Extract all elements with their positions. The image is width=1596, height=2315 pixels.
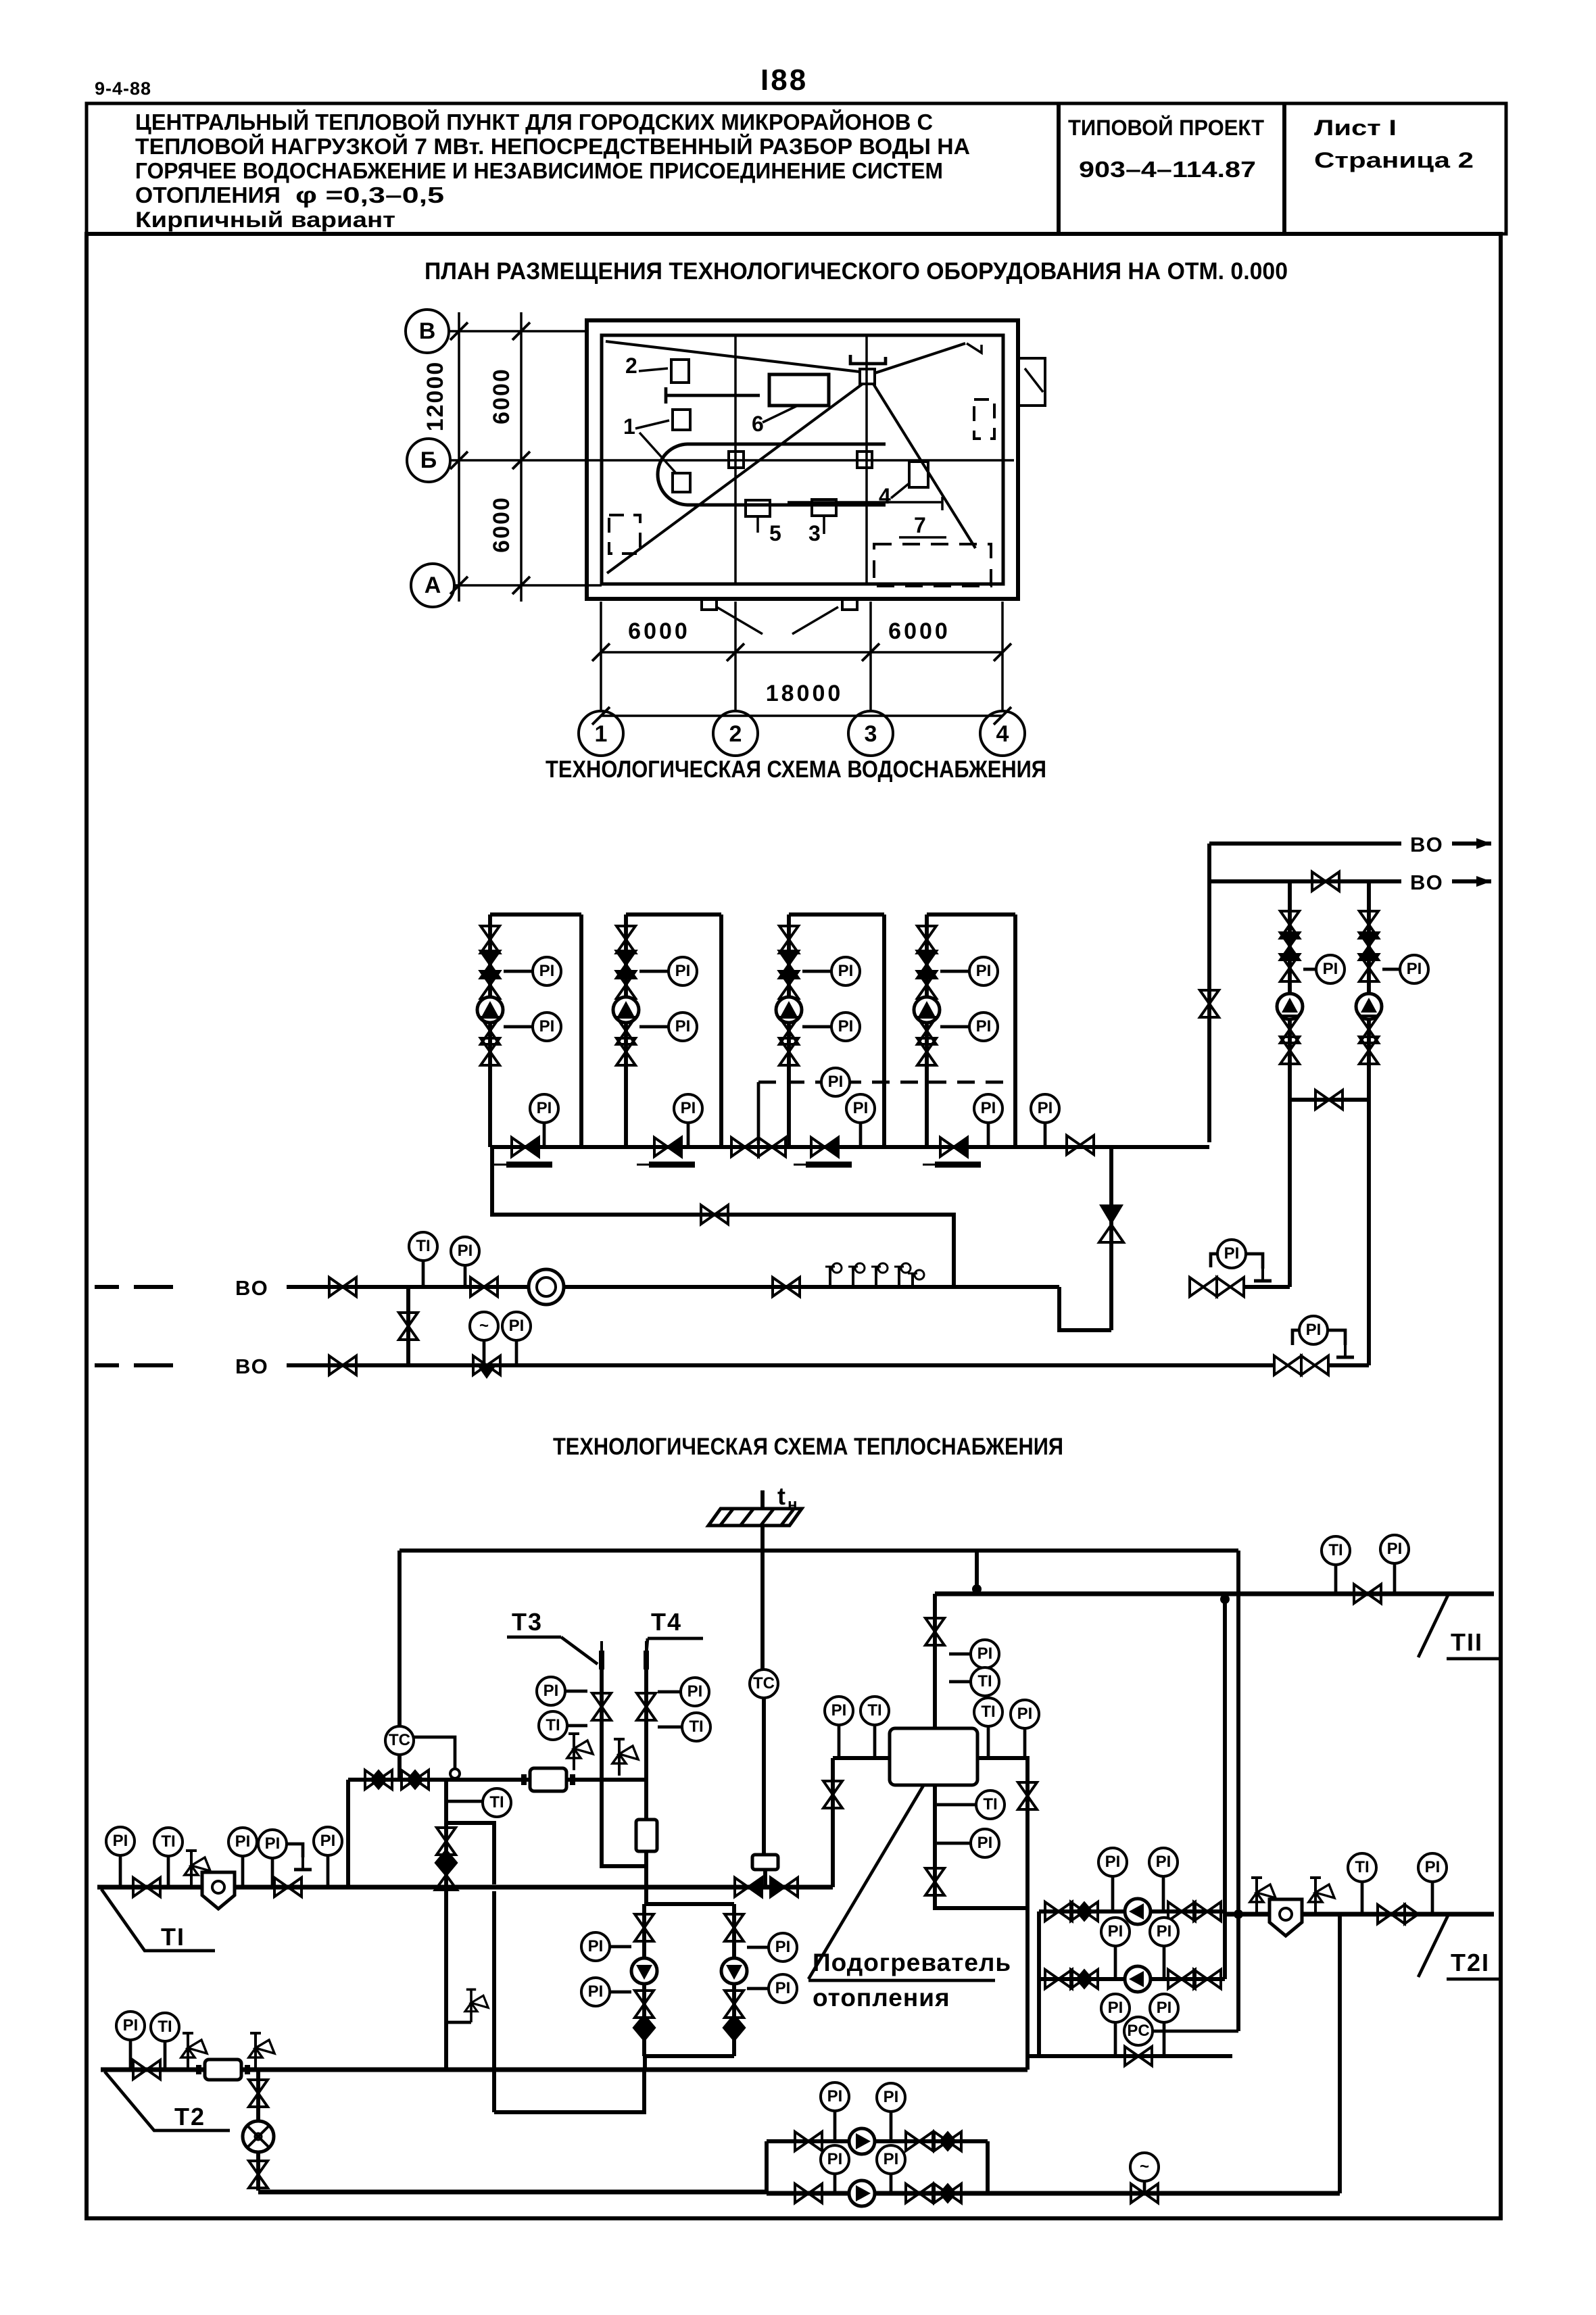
svg-text:18000: 18000 bbox=[766, 681, 844, 706]
gauge stem bbox=[610, 1991, 631, 1994]
recirc bottom branch bbox=[767, 2191, 988, 2195]
TI branch bbox=[446, 1780, 494, 1884]
svg-text:PI: PI bbox=[853, 1099, 869, 1117]
valve bbox=[616, 926, 635, 953]
thermometer well bbox=[644, 1641, 649, 1670]
valve bbox=[1280, 911, 1299, 938]
valve bbox=[470, 1277, 498, 1296]
battery row 3 bbox=[1027, 2054, 1232, 2058]
gauge TI bbox=[861, 1697, 889, 1725]
pump column 2 riser bbox=[624, 915, 628, 1147]
svg-text:2: 2 bbox=[625, 354, 637, 378]
valve bbox=[481, 971, 500, 998]
grid line В bbox=[449, 330, 588, 333]
svg-text:6000: 6000 bbox=[489, 368, 514, 424]
pump bbox=[914, 997, 940, 1023]
svg-text:PI: PI bbox=[1407, 960, 1422, 978]
dimension line 6000+6000 bbox=[601, 651, 1002, 654]
valve bbox=[512, 1138, 539, 1156]
svg-text:ВО: ВО bbox=[1410, 833, 1444, 856]
valve bbox=[1067, 1136, 1094, 1154]
svg-text:PI: PI bbox=[687, 1682, 703, 1701]
valve bbox=[592, 1693, 611, 1720]
dashed pit bottom bbox=[874, 544, 991, 586]
gauge PI bbox=[877, 2083, 905, 2112]
bracket 7 bbox=[788, 501, 942, 504]
door bottom 1 bbox=[696, 599, 717, 610]
svg-text:PI: PI bbox=[235, 1832, 251, 1851]
svg-text:TI: TI bbox=[158, 2018, 172, 2036]
valve bbox=[773, 1277, 800, 1296]
svg-text:TI: TI bbox=[546, 1716, 560, 1734]
rail line bbox=[666, 394, 760, 397]
svg-text:4: 4 bbox=[879, 484, 891, 508]
makeup drop bbox=[256, 2070, 260, 2191]
gauge stem bbox=[1044, 1123, 1047, 1147]
small box on axis Б left bbox=[729, 452, 744, 468]
thermometer well bbox=[599, 1641, 604, 1670]
vent mark bbox=[294, 1851, 312, 1870]
gauge stem bbox=[833, 2111, 837, 2141]
pump bbox=[776, 997, 802, 1023]
building outer wall bbox=[587, 320, 1018, 599]
svg-text:PI: PI bbox=[775, 1938, 791, 1956]
svg-text:ВО: ВО bbox=[235, 1276, 269, 1300]
gauge stem bbox=[610, 1945, 631, 1949]
equipment 1 box upper bbox=[673, 410, 690, 430]
svg-text:Страница 2: Страница 2 bbox=[1314, 148, 1474, 172]
BO top line 2 bbox=[1209, 879, 1401, 883]
heater box bbox=[890, 1728, 977, 1785]
extension line 2 bbox=[734, 602, 737, 711]
dirt trap bbox=[1269, 1899, 1302, 1936]
impulse line dashed bbox=[758, 1081, 1015, 1084]
svg-text:PI: PI bbox=[976, 962, 992, 980]
gauge stem bbox=[464, 1265, 467, 1287]
valve bbox=[249, 2080, 268, 2107]
gauge stem bbox=[1114, 1946, 1117, 1979]
gauge stem bbox=[446, 1800, 483, 1803]
svg-text:TI: TI bbox=[1328, 1541, 1343, 1559]
svg-text:PI: PI bbox=[838, 962, 854, 980]
gauge stem bbox=[987, 1123, 990, 1147]
gauge stem bbox=[937, 1842, 971, 1845]
gauge stem bbox=[987, 1726, 990, 1757]
crane ray 2 bbox=[875, 343, 965, 373]
drain mark bbox=[935, 1162, 981, 1168]
svg-text:PI: PI bbox=[977, 1834, 993, 1852]
drain mark bbox=[506, 1162, 552, 1168]
svg-text:PI: PI bbox=[543, 1682, 559, 1700]
svg-text:1: 1 bbox=[623, 414, 635, 439]
gauge PI bbox=[821, 1068, 850, 1096]
crane node bbox=[860, 369, 875, 384]
grid axis 1 bbox=[579, 711, 623, 756]
gauge PI bbox=[1400, 955, 1428, 983]
valve bbox=[437, 1828, 456, 1855]
gauge PI bbox=[530, 1094, 558, 1123]
recirc right leg bbox=[986, 2141, 990, 2193]
valve bbox=[795, 2184, 822, 2203]
svg-text:PI: PI bbox=[1323, 960, 1338, 978]
gauge TI bbox=[154, 1828, 183, 1856]
svg-text:PC: PC bbox=[1127, 2022, 1149, 2040]
header junction bbox=[975, 1551, 979, 1594]
equipment 5 box bbox=[746, 500, 770, 516]
svg-text:PI: PI bbox=[828, 1073, 844, 1091]
svg-text:ТII: ТII bbox=[1451, 1628, 1483, 1656]
valve bbox=[1217, 1277, 1244, 1296]
svg-text:TI: TI bbox=[867, 1701, 881, 1720]
BO2 pipe bbox=[287, 1363, 1276, 1367]
impulse drop bbox=[757, 1082, 760, 1144]
T2 break label bbox=[105, 2072, 230, 2130]
equipment 4 box bbox=[909, 462, 928, 487]
svg-text:TC: TC bbox=[389, 1731, 410, 1749]
svg-text:3: 3 bbox=[808, 521, 821, 545]
footer to T2 bbox=[643, 2056, 647, 2070]
svg-text:ТЕХНОЛОГИЧЕСКАЯ СХЕМА ВОДОСНАБ: ТЕХНОЛОГИЧЕСКАЯ СХЕМА ВОДОСНАБЖЕНИЯ bbox=[546, 756, 1046, 783]
valve bbox=[329, 1356, 356, 1375]
valve bbox=[779, 1038, 798, 1065]
grid axis 4 bbox=[980, 711, 1025, 756]
drain mark bbox=[649, 1162, 695, 1168]
booster riser bbox=[1288, 881, 1292, 1062]
tee to BO2 bbox=[406, 1287, 410, 1365]
valve bbox=[481, 951, 500, 978]
inline device bbox=[524, 1768, 573, 1791]
gauge PI bbox=[533, 957, 561, 985]
gauge stem bbox=[890, 2112, 893, 2141]
circulation pump footer bbox=[644, 2054, 734, 2058]
pump column 1 right leg bbox=[579, 915, 583, 1147]
svg-text:PI: PI bbox=[265, 1834, 281, 1853]
check valve bbox=[436, 1851, 456, 1875]
svg-text:Т3: Т3 bbox=[512, 1608, 543, 1636]
flow arrow bbox=[1476, 838, 1491, 849]
gauge stem bbox=[422, 1261, 425, 1287]
heater left drop bbox=[831, 1758, 835, 1887]
gauge PI bbox=[228, 1828, 257, 1856]
grid axis 2 bbox=[713, 711, 758, 756]
svg-text:Т2I: Т2I bbox=[1451, 1949, 1490, 1976]
gauge stem bbox=[1163, 2022, 1166, 2056]
dashed pit left bbox=[609, 515, 640, 554]
riser to T1 left bbox=[346, 1780, 350, 1887]
svg-text:PI: PI bbox=[537, 1099, 552, 1117]
actuator box bbox=[752, 1855, 778, 1870]
gauge TI bbox=[539, 1711, 567, 1740]
gauge PI bbox=[831, 957, 860, 985]
drawing frame bbox=[87, 234, 1501, 2218]
gauge TI bbox=[1348, 1853, 1376, 1882]
dirt trap bbox=[202, 1872, 235, 1909]
svg-text:TI: TI bbox=[983, 1795, 997, 1813]
pump bbox=[477, 997, 503, 1023]
check valve bbox=[634, 2016, 654, 2040]
valve bbox=[917, 926, 936, 953]
BO2 pipe dashes bbox=[95, 1363, 119, 1367]
valve bbox=[1194, 1902, 1221, 1921]
gauge PI bbox=[581, 1978, 610, 2006]
gauge PI bbox=[1031, 1094, 1059, 1123]
gauge stem bbox=[567, 1724, 587, 1728]
gauge PI bbox=[537, 1677, 565, 1705]
extension line 3 bbox=[869, 602, 872, 711]
T3 drop to pump suction bbox=[602, 1780, 646, 1866]
heater label leader bbox=[808, 1784, 924, 1979]
valve bbox=[771, 1878, 798, 1897]
gauge stem bbox=[1114, 2022, 1117, 2056]
valve bbox=[934, 2184, 961, 2203]
tank pit outline bbox=[658, 444, 886, 505]
crane ray 3 bbox=[607, 384, 863, 573]
gauge stem bbox=[802, 1025, 831, 1029]
svg-text:PI: PI bbox=[831, 1701, 847, 1720]
valve bbox=[906, 2132, 933, 2151]
svg-text:PI: PI bbox=[458, 1242, 473, 1260]
svg-text:ГОРЯЧЕЕ ВОДОСНАБЖЕНИЕ И НЕЗАВИ: ГОРЯЧЕЕ ВОДОСНАБЖЕНИЕ И НЕЗАВИСИМОЕ ПРИС… bbox=[135, 158, 943, 183]
cross connector bbox=[1290, 1098, 1369, 1102]
gauge PI bbox=[669, 957, 697, 985]
actuator box bbox=[636, 1820, 657, 1851]
roof hook bbox=[967, 343, 982, 353]
underpass loop bbox=[494, 2070, 644, 2112]
svg-text:PI: PI bbox=[113, 1832, 128, 1850]
svg-text:PI: PI bbox=[1017, 1705, 1033, 1723]
valve bbox=[917, 971, 936, 998]
svg-text:PI: PI bbox=[681, 1099, 696, 1117]
compensator line bbox=[760, 1551, 765, 1670]
gauge stem bbox=[949, 1680, 971, 1684]
gauge PC bbox=[1124, 2017, 1153, 2045]
valve bbox=[1280, 933, 1299, 960]
valve bbox=[1045, 1970, 1072, 1989]
valve bbox=[823, 1781, 842, 1808]
gauge stem bbox=[859, 1123, 863, 1147]
vent mark bbox=[1254, 1262, 1272, 1281]
valve bbox=[1280, 1016, 1299, 1043]
valve bbox=[616, 951, 635, 978]
small box on axis Б right bbox=[857, 452, 872, 468]
gauge PI bbox=[1316, 955, 1345, 983]
valve bbox=[934, 2132, 961, 2151]
gauge PI bbox=[674, 1094, 702, 1123]
circulation pump branch bbox=[732, 1904, 736, 2056]
valve bbox=[1168, 1970, 1195, 1989]
gauge PI bbox=[877, 2145, 905, 2174]
valve bbox=[925, 1618, 944, 1645]
valve bbox=[249, 2161, 268, 2188]
TC stem bbox=[397, 1755, 402, 1780]
svg-text:отопления: отопления bbox=[813, 1984, 950, 2012]
grid line 3 vertical bbox=[865, 335, 868, 584]
check valve column bbox=[444, 1823, 448, 2070]
svg-text:Т2: Т2 bbox=[174, 2103, 205, 2130]
gauge PI bbox=[1150, 1994, 1178, 2022]
valve bbox=[1359, 933, 1378, 960]
safety valve bbox=[185, 1851, 210, 1887]
gauge stem bbox=[890, 2174, 893, 2193]
gauge TI bbox=[1322, 1536, 1350, 1565]
gauge PI bbox=[669, 1013, 697, 1041]
valve bbox=[654, 1138, 681, 1156]
header left drop bbox=[397, 1551, 402, 1726]
gauge stem bbox=[1303, 968, 1317, 971]
pump column 3 header bbox=[789, 912, 884, 917]
recirc top branch bbox=[767, 2139, 988, 2143]
gauge stem bbox=[658, 1690, 681, 1694]
safety valve bbox=[465, 1989, 488, 2022]
grid line 2 vertical bbox=[734, 335, 737, 584]
T1 break label bbox=[101, 1889, 215, 1951]
gauge TI bbox=[151, 2013, 179, 2041]
gauge TC bbox=[750, 1670, 778, 1698]
gauge PI bbox=[1380, 1535, 1409, 1563]
valve bbox=[1312, 872, 1339, 891]
pump bbox=[1125, 1966, 1151, 1992]
valve bbox=[274, 1878, 301, 1897]
svg-text:PI: PI bbox=[675, 962, 691, 980]
svg-text:PI: PI bbox=[1224, 1244, 1240, 1263]
compensator stem bbox=[762, 1698, 766, 1855]
TC pickup bbox=[414, 1737, 455, 1769]
valve bbox=[779, 951, 798, 978]
svg-text:PI: PI bbox=[838, 1017, 854, 1035]
svg-text:TI: TI bbox=[161, 1832, 175, 1851]
gauge stem bbox=[543, 1123, 546, 1147]
gauge stem bbox=[838, 1725, 841, 1758]
title block divider bbox=[1282, 103, 1286, 234]
gauge PI bbox=[969, 1013, 998, 1041]
gauge stem bbox=[167, 1856, 170, 1887]
pump bbox=[1125, 1899, 1151, 1924]
valve bbox=[906, 2184, 933, 2203]
valve bbox=[1280, 1037, 1299, 1064]
gauge PI bbox=[106, 1827, 135, 1855]
svg-text:3: 3 bbox=[865, 721, 877, 747]
valve bbox=[725, 1991, 744, 2018]
svg-text:9-4-88: 9-4-88 bbox=[95, 78, 151, 99]
gauge PI bbox=[314, 1827, 342, 1855]
T1 line bbox=[97, 1884, 833, 1889]
T11 break label bbox=[1418, 1595, 1448, 1657]
svg-text:PI: PI bbox=[320, 1832, 336, 1850]
inline device bbox=[199, 2060, 247, 2080]
pump bbox=[1356, 994, 1382, 1019]
svg-text:TI: TI bbox=[489, 1793, 504, 1811]
grid axis А bbox=[411, 564, 454, 607]
title block frame bbox=[87, 103, 1506, 234]
dimension line 6000 column bbox=[520, 312, 523, 602]
gauge stem bbox=[940, 970, 969, 973]
dimension line 18000 bbox=[601, 714, 1002, 717]
valve bbox=[133, 2060, 160, 2079]
recirc tail bbox=[988, 2191, 1340, 2195]
gauge stem bbox=[1162, 1876, 1165, 1911]
BO top line 1 bbox=[1209, 842, 1401, 846]
sample point bbox=[908, 1270, 924, 1287]
gauge stem bbox=[129, 2040, 132, 2070]
svg-text:TI: TI bbox=[977, 1672, 992, 1690]
valve bbox=[1378, 1905, 1405, 1924]
pump column 3 right leg bbox=[882, 915, 886, 1147]
pump bbox=[721, 1958, 747, 1984]
pump column 4 riser bbox=[925, 915, 929, 1147]
pump column 2 right leg bbox=[719, 915, 723, 1147]
valve bbox=[1359, 1037, 1378, 1064]
valve bbox=[917, 951, 936, 978]
heater left pipe bbox=[833, 1756, 890, 1760]
T11 line bbox=[935, 1591, 1494, 1596]
valve bbox=[1359, 911, 1378, 938]
grid line А bbox=[454, 584, 602, 587]
T4 riser lower bbox=[644, 1851, 648, 1904]
booster riser bbox=[1367, 881, 1371, 1062]
svg-text:PI: PI bbox=[884, 2150, 899, 2168]
dimension line 12000 bbox=[458, 312, 460, 602]
gauge PI bbox=[769, 1933, 797, 1961]
gauge stem bbox=[1431, 1882, 1434, 1914]
vent mark bbox=[1336, 1338, 1354, 1357]
grid line Б bbox=[450, 459, 1014, 462]
header right drop bbox=[1236, 1551, 1240, 2031]
gauge stem bbox=[940, 1025, 969, 1029]
equipment 6 box bbox=[769, 374, 829, 406]
svg-text:~: ~ bbox=[479, 1317, 489, 1335]
gauge PI bbox=[769, 1974, 797, 2003]
gauge stem bbox=[119, 1855, 122, 1887]
valve bbox=[473, 1356, 500, 1375]
valve bbox=[637, 1693, 656, 1720]
valve bbox=[925, 1868, 944, 1895]
T4 riser bbox=[644, 1653, 648, 1820]
gauge TI bbox=[971, 1667, 999, 1696]
svg-text:TI: TI bbox=[416, 1237, 430, 1255]
gauge PI bbox=[1299, 1316, 1328, 1344]
svg-text:н: н bbox=[788, 1496, 798, 1514]
gauge TI bbox=[974, 1698, 1002, 1726]
svg-text:1: 1 bbox=[595, 721, 608, 747]
valve bbox=[917, 1017, 936, 1044]
valve bbox=[1131, 2184, 1158, 2203]
safety valve bbox=[612, 1739, 638, 1776]
grid axis Б bbox=[407, 439, 450, 482]
gauge TI bbox=[483, 1788, 511, 1817]
gauge PI bbox=[846, 1094, 875, 1123]
valve bbox=[1301, 1356, 1328, 1375]
battery left header bbox=[1037, 1911, 1041, 2056]
branch below T1 bbox=[492, 1891, 496, 2112]
connector bbox=[1059, 1287, 1111, 1330]
gauge ~ bbox=[470, 1312, 498, 1340]
valve bbox=[616, 1017, 635, 1044]
pump column 1 riser bbox=[488, 915, 492, 1147]
check valve bbox=[724, 2016, 744, 2040]
gauge stem bbox=[504, 970, 532, 973]
riser A lower bbox=[1288, 1062, 1292, 1287]
valve bbox=[1315, 1090, 1343, 1109]
svg-text:PI: PI bbox=[123, 2016, 139, 2034]
valve bbox=[701, 1205, 728, 1224]
gauge ~ bbox=[1130, 2153, 1159, 2181]
pump column 4 header bbox=[927, 912, 1015, 917]
svg-text:6000: 6000 bbox=[489, 496, 514, 553]
gauge stem bbox=[937, 1803, 976, 1807]
pump column 2 header bbox=[626, 912, 721, 917]
BO2 tail bbox=[1328, 1363, 1369, 1367]
check valve branch bbox=[1109, 1147, 1113, 1330]
